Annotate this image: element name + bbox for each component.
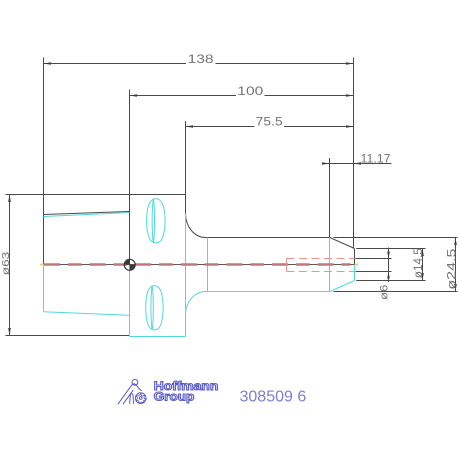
- svg-text:Group: Group: [154, 391, 195, 403]
- svg-text:ø14.5: ø14.5: [411, 248, 425, 278]
- svg-text:75.5: 75.5: [256, 115, 283, 129]
- svg-text:ø6: ø6: [378, 285, 390, 301]
- svg-text:ø24.5: ø24.5: [444, 248, 458, 289]
- svg-text:100: 100: [237, 84, 263, 98]
- svg-text:308509 6: 308509 6: [240, 388, 307, 405]
- svg-text:11.17: 11.17: [361, 153, 391, 165]
- svg-text:138: 138: [188, 52, 214, 66]
- svg-text:ø63: ø63: [1, 251, 12, 275]
